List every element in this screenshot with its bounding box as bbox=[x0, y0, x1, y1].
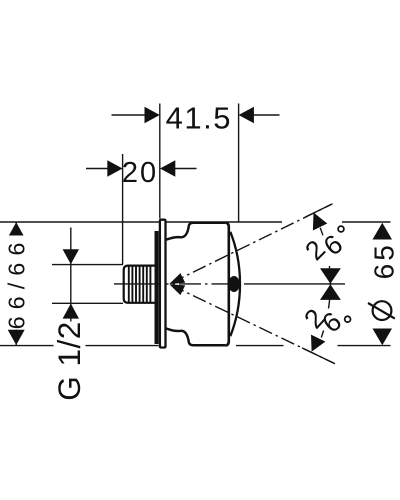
label 26 deg upper: degree sign bbox=[338, 226, 344, 232]
dimension arrowhead O65 bottom bbox=[373, 329, 393, 346]
angle arc lower 26deg bbox=[321, 284, 330, 338]
spray axis lower diagonal (dash-dot) bbox=[171, 285, 334, 363]
diameter symbol circle bbox=[373, 301, 392, 320]
angle zero arrowhead upper (bowtie) bbox=[320, 268, 341, 284]
text 66/66 (rotated) bbox=[3, 236, 29, 330]
sleeve top profile bbox=[166, 223, 225, 240]
dimension arrowhead 66/66 top bbox=[8, 222, 25, 237]
body face bbox=[225, 223, 229, 346]
extension line 41.5 right tick x=238.6 bbox=[238, 104, 240, 223]
sleeve bottom profile bbox=[166, 329, 225, 346]
thread hatch lines bbox=[129, 266, 151, 302]
dimension arrowhead G1/2 bottom bbox=[63, 304, 79, 319]
extension line 41.5 left tick x=159.8 bbox=[159, 104, 161, 219]
svg-text:65: 65 bbox=[369, 242, 400, 279]
angle arc arrowhead upper bbox=[313, 213, 327, 231]
extension line top (66/66 and O65, y=222) bbox=[0, 221, 391, 223]
apex arrowhead lower bbox=[169, 284, 185, 295]
svg-text:20: 20 bbox=[122, 157, 158, 189]
dimension arrowhead 66/66 bottom bbox=[8, 330, 25, 345]
dimension 20 tails bbox=[86, 168, 197, 170]
text 65 (rotated) bbox=[369, 242, 400, 280]
dimension arrowhead 20 right bbox=[160, 160, 175, 176]
centerline axis solid right part bbox=[247, 283, 345, 285]
svg-text:41.5: 41.5 bbox=[166, 101, 232, 136]
face dome arc bbox=[230, 232, 240, 336]
svg-text:66/66: 66/66 bbox=[3, 236, 29, 330]
extension line 20 left tick x=122.6 bbox=[122, 154, 124, 265]
label 26 deg lower: degree sign bbox=[345, 316, 351, 322]
dimension 41.5 tails bbox=[112, 114, 280, 116]
dimension arrowhead 20 left bbox=[107, 160, 122, 176]
wall plate (filled bar) bbox=[155, 231, 159, 344]
angle arc upper 26deg bbox=[320, 228, 330, 284]
spray axis upper diagonal (dash-dot) bbox=[171, 205, 331, 283]
spray axis upper diagonal solid end bbox=[305, 204, 333, 218]
angle zero arrowhead lower (bowtie) bbox=[320, 284, 341, 300]
dimension line 66/66 vertical x=16.2 bbox=[15, 222, 17, 346]
label 26 deg upper: digit 2 bbox=[299, 234, 331, 266]
thread pipe G1/2 bbox=[124, 266, 155, 303]
apex arrowhead upper bbox=[169, 273, 185, 284]
nozzle boss bbox=[228, 276, 240, 292]
diameter symbol slash bbox=[368, 303, 395, 319]
centerline axis (dash-dot) y=283.9 bbox=[114, 283, 247, 285]
dimension arrowhead 41.5 left bbox=[145, 107, 160, 123]
escutcheon plate bbox=[160, 220, 166, 348]
text G 1/2 (rotated) bbox=[51, 321, 87, 401]
dimension arrowhead G1/2 top bbox=[63, 249, 79, 264]
centerline through thread bbox=[124, 283, 155, 285]
label 26 deg lower: digit 6 bbox=[316, 306, 347, 339]
svg-text:G 1/2: G 1/2 bbox=[51, 321, 87, 401]
extension line bottom (y=345.6) bbox=[0, 345, 391, 347]
angle arc arrowhead lower bbox=[311, 335, 325, 352]
label 26 deg upper: digit 6 bbox=[318, 229, 348, 262]
label 26 deg lower: digit 2 bbox=[298, 303, 330, 334]
dimension arrowhead 41.5 right bbox=[239, 107, 254, 123]
leader line G1/2 vertical x=70.8 bbox=[70, 228, 72, 346]
dimension arrowhead O65 top bbox=[373, 223, 393, 240]
spray axis lower diagonal solid end bbox=[302, 348, 335, 364]
extension lines thread diameter bbox=[52, 265, 123, 304]
